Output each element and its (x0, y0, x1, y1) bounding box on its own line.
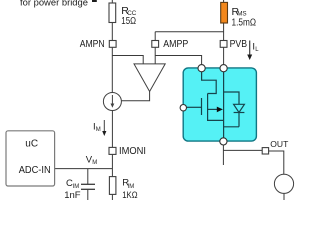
svg-text:AMPP: AMPP (163, 38, 188, 50)
svg-text:IMONI: IMONI (119, 146, 146, 157)
svg-text:M: M (92, 160, 97, 166)
svg-text:AMPN: AMPN (80, 38, 105, 50)
svg-text:15Ω: 15Ω (121, 15, 136, 27)
svg-text:1nF: 1nF (64, 190, 81, 200)
svg-text:PVB: PVB (230, 38, 248, 50)
svg-text:uC: uC (25, 138, 38, 149)
svg-text:M: M (96, 127, 101, 133)
svg-text:L: L (255, 47, 259, 53)
svg-text:1KΩ: 1KΩ (122, 190, 137, 200)
svg-text:1.5mΩ: 1.5mΩ (232, 16, 257, 28)
svg-text:OUT: OUT (270, 139, 288, 149)
svg-text:ADC-IN: ADC-IN (19, 164, 51, 176)
svg-text:for power bridge: for power bridge (20, 0, 88, 8)
